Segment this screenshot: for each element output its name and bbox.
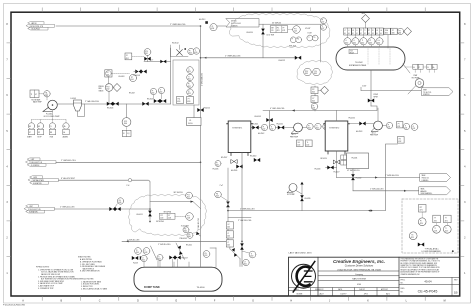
wire y248 stub	[210, 247, 216, 249]
revision cloud 2	[297, 61, 332, 85]
svg-text:4553: 4553	[204, 255, 207, 257]
svg-text:4504: 4504	[130, 79, 133, 81]
svg-text:HV-4543: HV-4543	[255, 116, 261, 118]
vessel SYSTEM 2	[324, 121, 349, 154]
company logo CE	[292, 261, 316, 292]
svg-text:8" HH-4707-WST: 8" HH-4707-WST	[61, 178, 76, 180]
svg-text:4523: 4523	[305, 73, 308, 75]
svg-text:4566: 4566	[392, 33, 395, 35]
svg-text:4566: 4566	[398, 32, 401, 34]
svg-text:HV-4509: HV-4509	[134, 75, 141, 77]
svg-text:4544: 4544	[297, 145, 300, 147]
instrument PIT-4543	[175, 213, 193, 221]
instrument HS-4500 start	[27, 123, 35, 139]
valve HV-4533	[356, 124, 374, 134]
svg-text:4573: 4573	[411, 237, 414, 239]
svg-text:PT: PT	[368, 30, 370, 32]
svg-text:4571: 4571	[434, 231, 437, 233]
instrument PIC-4521 circle	[288, 26, 311, 34]
instrument square FQI-4524	[177, 97, 184, 104]
valve HV-4515	[197, 108, 210, 112]
svg-text:HV-4522: HV-4522	[279, 60, 286, 62]
svg-text:START NOTES:: START NOTES:	[78, 255, 91, 258]
instrument stack top right of cloud1	[321, 18, 327, 30]
svg-text:4566: 4566	[385, 33, 388, 35]
tank TK-4500 dump tank	[134, 267, 222, 291]
instrument PI-4505	[150, 88, 156, 94]
svg-text:PRESS: PRESS	[99, 86, 104, 88]
tank nozzles	[158, 248, 216, 267]
svg-text:LS: LS	[427, 67, 429, 69]
valve HV-4550	[247, 24, 274, 58]
wire header 2"GWH-300-CSG	[201, 55, 297, 58]
notes piping	[36, 267, 80, 290]
svg-text:2" GWS-411-CSG: 2" GWS-411-CSG	[60, 207, 75, 209]
svg-text:PY: PY	[392, 30, 394, 32]
instrument pair F-4504	[307, 32, 318, 40]
title block frame	[289, 257, 460, 296]
instrument stack SP-4500 squares	[226, 222, 233, 247]
svg-text:4521: 4521	[188, 78, 191, 80]
valve on drain riser	[240, 243, 244, 249]
svg-text:4505: 4505	[151, 93, 154, 95]
svg-text:HS: HS	[399, 139, 401, 141]
svg-text:6"x3/8": 6"x3/8"	[308, 32, 313, 34]
svg-text:2" GWL-300-CSG: 2" GWL-300-CSG	[370, 188, 384, 190]
svg-text:CE-45-P044: CE-45-P044	[31, 29, 39, 31]
instrument PT-4526	[311, 103, 318, 110]
svg-text:4564: 4564	[377, 43, 380, 45]
svg-text:4523: 4523	[188, 93, 191, 95]
instrument LT-4502	[243, 259, 249, 265]
instrument PG-4523	[313, 68, 321, 76]
relief diamond PSE-4526	[318, 86, 328, 94]
svg-text:TK-4500: TK-4500	[197, 287, 206, 289]
svg-text:TYPICAL AT ALL: TYPICAL AT ALL	[425, 247, 439, 250]
instrument PI-4542	[258, 124, 268, 135]
svg-text:PY: PY	[168, 215, 170, 217]
valve HV-4534	[348, 117, 366, 125]
instrument PI-4523	[187, 89, 194, 96]
svg-text:FT: FT	[188, 99, 190, 101]
svg-text:TY: TY	[445, 218, 447, 220]
instrument TG-4573	[409, 232, 417, 240]
svg-text:HV-4506: HV-4506	[107, 107, 113, 109]
svg-text:ACV: ACV	[319, 293, 324, 296]
svg-text:PCV: PCV	[187, 194, 190, 196]
instrument TI-4521	[187, 74, 194, 81]
instrument LI-4550 above tank	[141, 255, 147, 267]
instrument row LI-4561	[352, 28, 360, 47]
svg-text:PIT: PIT	[294, 28, 296, 30]
svg-text:4501: 4501	[227, 236, 230, 238]
svg-text:PT: PT	[313, 105, 315, 107]
node J6	[241, 241, 243, 243]
svg-text:PIT: PIT	[420, 207, 422, 209]
valve below PCV-4511	[144, 55, 150, 60]
svg-text:PUMP: PUMP	[374, 94, 378, 96]
svg-text:1/2": 1/2"	[151, 60, 154, 62]
instrument row TI-4562	[360, 28, 368, 47]
instrument XA-4500	[63, 123, 70, 139]
svg-text:HS: HS	[29, 126, 31, 128]
instrument circle TI-4531	[403, 123, 409, 129]
typical note text	[422, 247, 454, 253]
instrument square TY-4572	[444, 215, 452, 223]
svg-text:16"x6" RDR: 16"x6" RDR	[267, 34, 274, 36]
svg-text:SYSTEM 1: SYSTEM 1	[232, 127, 243, 129]
svg-text:PU-4500: PU-4500	[46, 114, 53, 116]
svg-text:LIC: LIC	[228, 224, 230, 226]
svg-text:4523: 4523	[314, 73, 317, 75]
svg-text:HV-4552: HV-4552	[186, 245, 192, 247]
label BP-4537	[221, 157, 237, 163]
svg-text:HV-4507: HV-4507	[129, 93, 135, 95]
instrument PT-4504	[129, 74, 137, 94]
svg-text:PCV: PCV	[145, 51, 148, 53]
instrument square YL-4544	[306, 140, 313, 147]
vessel SYSTEM 1	[227, 121, 252, 156]
svg-text:4701: 4701	[45, 95, 48, 97]
svg-text:G: G	[252, 300, 254, 303]
wire vent header to flag	[361, 86, 421, 91]
pump PU-4527	[334, 172, 340, 174]
svg-text:4531: 4531	[387, 127, 390, 129]
svg-text:HV-4531: HV-4531	[352, 158, 358, 160]
svg-text:PG: PG	[184, 229, 186, 231]
instrument YL-4500 run	[49, 123, 55, 139]
instrument PCV square PRESS RED	[105, 70, 125, 78]
equipment 45 BLDG box	[187, 105, 202, 126]
svg-text:Company: Company	[355, 274, 363, 276]
valve HV-4522	[279, 56, 302, 62]
instrument TI-4571	[433, 223, 441, 234]
cluster HV-4510 inlet station	[171, 42, 200, 56]
svg-text:PIT: PIT	[187, 215, 189, 217]
svg-text:4520: 4520	[188, 71, 191, 73]
svg-text:TG: TG	[314, 37, 316, 39]
level switch squares LS-4569	[423, 64, 437, 72]
instrument PCV-4523	[304, 68, 312, 76]
instrument row LG-4564	[376, 28, 384, 47]
svg-text:TY: TY	[434, 218, 436, 220]
svg-text:TRUCK 45: TRUCK 45	[422, 178, 429, 180]
svg-text:TT: TT	[360, 30, 362, 32]
svg-text:4517: 4517	[321, 28, 324, 30]
svg-text:PIC: PIC	[161, 215, 163, 217]
svg-text:ST: ST	[29, 132, 31, 134]
wire pump PU-4529 riser	[296, 182, 311, 211]
wire tank bottom outlet	[368, 70, 378, 106]
svg-text:BP-4537: BP-4537	[221, 157, 227, 159]
instrument TI-4550 above tank	[157, 255, 163, 268]
svg-text:4522: 4522	[188, 86, 191, 88]
svg-text:4570: 4570	[420, 210, 423, 212]
valve HV-4547 above tank	[169, 256, 188, 268]
svg-text:1" GWL-302-CSG: 1" GWL-302-CSG	[198, 217, 200, 230]
svg-text:HV-4534: HV-4534	[349, 117, 355, 119]
svg-text:UNIT: UNIT	[31, 159, 35, 161]
instrument PG-4549 on riser	[215, 185, 230, 207]
svg-text:4510: 4510	[194, 52, 197, 54]
svg-text:4549: 4549	[216, 196, 219, 198]
svg-text:4550: 4550	[142, 260, 145, 262]
instrument stack TI-4520	[187, 67, 194, 74]
svg-text:4511: 4511	[145, 53, 148, 55]
svg-text:4524: 4524	[177, 101, 180, 103]
svg-text:2" GAL-300-CSG: 2" GAL-300-CSG	[85, 100, 99, 103]
svg-text:PY: PY	[283, 28, 285, 30]
instrument FI-4545	[323, 123, 329, 129]
svg-text:BLDG: BLDG	[188, 123, 193, 125]
svg-text:45: 45	[189, 120, 191, 122]
svg-text:C: C	[99, 300, 101, 303]
instrument PI-4522	[187, 82, 194, 89]
svg-text:NONE: NONE	[297, 294, 303, 296]
svg-text:4543: 4543	[187, 218, 190, 220]
title block disclaimer	[401, 257, 441, 275]
svg-text:M: M	[444, 300, 446, 303]
svg-text:VENT: VENT	[423, 90, 427, 92]
instrument HS-4501 stop	[37, 123, 43, 139]
svg-text:1B: 1B	[454, 291, 458, 295]
svg-text:LT: LT	[419, 67, 421, 69]
svg-text:HV-4503: HV-4503	[119, 76, 125, 78]
instrument FCV-4506 drop	[122, 104, 131, 137]
wire cloud2 drop	[314, 86, 316, 111]
valve HV-4513	[199, 19, 208, 24]
svg-text:4571: 4571	[434, 220, 437, 222]
svg-text:P+F: P+F	[127, 185, 130, 187]
svg-text:GLY PUMP: GLY PUMP	[287, 194, 295, 196]
wire low header 2"GW-310-CSG	[228, 218, 252, 222]
svg-text:4543: 4543	[184, 231, 187, 233]
relief PSE-4521	[289, 37, 302, 48]
svg-text:RN: RN	[50, 132, 52, 134]
svg-text:4531: 4531	[397, 126, 400, 128]
revision cloud 3	[129, 195, 207, 236]
instrument TI-4503	[242, 251, 256, 258]
wire cloud1 header	[259, 22, 321, 24]
svg-text:4545: 4545	[308, 128, 311, 130]
svg-text:PCV: PCV	[106, 86, 109, 88]
svg-text:UNIT 45: UNIT 45	[231, 20, 237, 22]
instrument PI-4545	[302, 123, 313, 129]
instrument square TY-4571	[433, 215, 441, 223]
svg-text:4543: 4543	[168, 217, 171, 219]
svg-text:CHK BY: CHK BY	[359, 289, 366, 291]
svg-text:PY: PY	[312, 98, 314, 100]
svg-text:E. MID OPER RESISTOR: E. MID OPER RESISTOR	[80, 271, 100, 273]
svg-text:PRE PUMP: PRE PUMP	[370, 135, 378, 137]
svg-text:4" GWR-400-CSG: 4" GWR-400-CSG	[202, 72, 204, 86]
svg-text:4521: 4521	[294, 31, 297, 33]
svg-text:TO BLDG EXT LIN: TO BLDG EXT LIN	[28, 209, 41, 211]
svg-text:SET 300 PSIG: SET 300 PSIG	[174, 192, 183, 194]
svg-text:RDCR: RDCR	[350, 53, 354, 55]
svg-text:LT: LT	[244, 261, 246, 263]
svg-text:4. RELOCATING LEGAL TO TANK: 4. RELOCATING LEGAL TO TANK	[81, 287, 108, 290]
svg-text:4502: 4502	[106, 89, 109, 91]
svg-text:6. OPERATOR TRIP: 6. OPERATOR TRIP	[38, 287, 54, 290]
svg-text:LOCATIONS/MARKED: LOCATIONS/MARKED	[422, 250, 442, 253]
svg-text:2" GW-310-CSG: 2" GW-310-CSG	[158, 244, 171, 246]
valve angled tank inlet	[230, 247, 240, 267]
svg-text:3/4" GWR-305: 3/4" GWR-305	[272, 22, 281, 24]
svg-text:BP-4520: BP-4520	[321, 158, 327, 160]
svg-text:F-4508: F-4508	[133, 262, 138, 264]
wire cloud1 to cloud2 drop	[320, 24, 322, 62]
valve in typical box	[418, 243, 424, 247]
svg-text:PG: PG	[119, 200, 121, 202]
svg-text:LT: LT	[228, 242, 230, 244]
wire header 4"GWS-300-CSG	[252, 106, 378, 128]
instrument circle FI-4531	[411, 124, 418, 131]
svg-text:2" GWR-401-CSG: 2" GWR-401-CSG	[61, 160, 76, 162]
node J2	[200, 57, 202, 59]
valve HV-4506 pair on GAL line	[107, 102, 149, 110]
svg-text:PG: PG	[216, 193, 218, 195]
title block numbers	[401, 279, 459, 294]
svg-text:LG: LG	[380, 30, 382, 32]
flag F3 vent-to-glycol-station	[422, 88, 454, 96]
valve HV-4509 pair	[134, 70, 147, 77]
svg-text:HV-4557: HV-4557	[182, 257, 188, 259]
wire 8"HH-4707-WST	[59, 178, 151, 187]
setpoint box PIC-4521	[270, 26, 288, 33]
instrument square PT-4531	[397, 122, 403, 128]
svg-text:1/2"x3/8": 1/2"x3/8"	[305, 28, 311, 30]
revision cloud 1	[229, 14, 330, 48]
svg-text:PRE PUMP: PRE PUMP	[290, 136, 298, 138]
svg-text:PG: PG	[205, 253, 207, 255]
svg-text:4526: 4526	[312, 92, 315, 94]
valve HV-4546 on GWS line	[109, 207, 120, 211]
flag F1 vapor-from-control-station	[26, 22, 54, 31]
instrument TE-4701	[39, 91, 50, 97]
instrument square FT-4524	[187, 97, 194, 104]
wire half-inch bypass	[144, 59, 171, 64]
instrument PI-4535	[213, 161, 222, 171]
svg-text:SP: SP	[38, 132, 40, 134]
svg-text:4521: 4521	[282, 30, 285, 32]
filter F-4503	[71, 98, 85, 117]
title block company name	[333, 259, 385, 286]
svg-text:4563: 4563	[369, 43, 372, 45]
svg-text:4542: 4542	[270, 129, 273, 131]
svg-text:HV-4515: HV-4515	[204, 108, 211, 110]
svg-text:TO GLYCOL: TO GLYCOL	[423, 92, 432, 94]
pump PU-4532 gly-2 pre pump	[370, 108, 382, 137]
svg-text:HV-4513: HV-4513	[199, 19, 205, 21]
svg-text:HV-4536: HV-4536	[231, 170, 237, 172]
node J4	[149, 208, 151, 210]
node J5	[227, 210, 229, 212]
svg-text:4531: 4531	[412, 128, 415, 130]
cluster PRV-4545	[132, 246, 157, 264]
svg-text:4521: 4521	[277, 30, 280, 32]
svg-text:4501: 4501	[227, 245, 230, 247]
svg-text:GLYCOL FEED PUMP: GLYCOL FEED PUMP	[44, 116, 60, 118]
wire relief header	[150, 201, 201, 209]
node J1	[200, 25, 202, 27]
svg-text:HV-4542: HV-4542	[258, 133, 264, 135]
valve HV-4541	[251, 124, 261, 130]
svg-text:TO BLDG EXT LIN: TO BLDG EXT LIN	[29, 162, 42, 164]
svg-text:DD/YY: DD/YY	[340, 294, 347, 296]
svg-text:PSE-4543: PSE-4543	[180, 238, 187, 240]
svg-text:2"x3/4": 2"x3/4"	[362, 86, 367, 88]
svg-text:VENT: VENT	[362, 13, 366, 15]
instrument TI-4545	[315, 123, 321, 129]
svg-text:4526: 4526	[312, 100, 315, 102]
svg-text:4512: 4512	[126, 58, 129, 60]
instrument square HS-4532	[398, 137, 405, 144]
wire system1 bottom drain	[241, 153, 243, 267]
svg-text:RAN SYSTEM: RAN SYSTEM	[352, 278, 366, 281]
svg-text:4510: 4510	[189, 53, 192, 55]
svg-text:PSH: PSH	[385, 30, 388, 32]
relief PSV diamond	[113, 84, 121, 92]
wire PIC dashed link	[112, 72, 129, 74]
svg-text:HV-4551: HV-4551	[137, 214, 143, 216]
wire low header 2"GW-300-CSG	[228, 144, 398, 212]
vent diamond PSE-4502	[362, 13, 370, 28]
svg-text:4535: 4535	[216, 165, 219, 167]
svg-text:HS: HS	[298, 142, 300, 144]
wire riser main x200	[201, 26, 204, 267]
svg-text:LG: LG	[413, 67, 415, 69]
flag F6 unit-to-bldg-ext	[26, 158, 56, 167]
instrument TI-4542	[269, 124, 275, 130]
svg-text:Customer Driven Solutions: Customer Driven Solutions	[345, 265, 374, 268]
wire pump discharge 2"GAL-300-CSG	[58, 100, 171, 104]
instrument TI-4572	[443, 223, 451, 234]
instrument PI-4512 square	[125, 53, 132, 60]
svg-text:SYSTEM 2: SYSTEM 2	[329, 127, 340, 129]
wire low left header y241	[122, 239, 228, 245]
valve HV-4536	[231, 165, 243, 173]
wire system2 bottom to BP-4520	[336, 151, 338, 178]
flag F2 unit-45-glycol-hx-station	[226, 19, 259, 28]
svg-text:4560: 4560	[345, 43, 348, 45]
svg-text:2" GWE-300-CSG: 2" GWE-300-CSG	[240, 208, 255, 210]
svg-text:PCV: PCV	[305, 71, 308, 73]
svg-text:4506: 4506	[124, 123, 127, 125]
svg-text:PIC: PIC	[277, 28, 279, 30]
svg-text:GLY-1: GLY-1	[292, 134, 296, 136]
wire tank to vent pump	[403, 64, 423, 94]
valve HV-4530 branch	[315, 166, 337, 171]
valve HV-4551 drop	[137, 182, 152, 223]
instrument square PY-4526	[311, 96, 318, 103]
svg-text:HV-4040: HV-4040	[250, 156, 256, 158]
svg-text:4501: 4501	[227, 227, 230, 229]
svg-text:HV-4541: HV-4541	[252, 124, 258, 126]
svg-text:4526: 4526	[312, 108, 315, 110]
notes vehicle	[79, 279, 108, 291]
sample cooler box HV-4531	[341, 153, 369, 172]
svg-text:HV-4539: HV-4539	[305, 198, 311, 200]
svg-text:RUN: RUN	[50, 137, 53, 139]
typical detail dashed box	[402, 199, 458, 253]
pump PU-4544 gly-1 pre pump	[290, 123, 302, 138]
svg-text:4570: 4570	[420, 223, 423, 225]
svg-text:4502: 4502	[244, 264, 247, 266]
svg-text:4562: 4562	[361, 43, 364, 45]
svg-text:PU-4527: PU-4527	[334, 172, 340, 174]
svg-text:4505: 4505	[159, 92, 162, 94]
